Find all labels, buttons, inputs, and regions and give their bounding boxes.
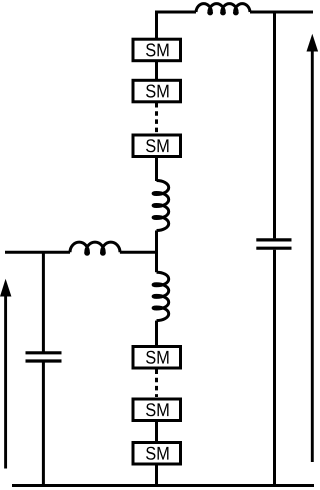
wire: SM1-SM2 link <box>155 61 158 81</box>
label SM1 <box>146 43 168 56</box>
wire: SM3 to L-arm-upper <box>155 157 158 182</box>
submodule SM1 <box>133 39 181 61</box>
label SM2 <box>146 85 168 98</box>
wire: SM6 to bottom bus <box>155 464 158 486</box>
label SM3 <box>146 139 168 152</box>
inductor L-mid (3 loops, horizontal) <box>70 242 120 254</box>
wire: junction segment between arm inductors <box>155 231 158 273</box>
submodule SM3 <box>133 135 181 157</box>
submodule SM2 <box>133 80 181 102</box>
submodule SM5 <box>133 399 181 421</box>
wire: middle bus left of inductor <box>5 251 70 254</box>
wire: right leg upper <box>273 12 276 238</box>
submodule SM6 <box>133 443 181 465</box>
inductor L-arm-lower (4 loops, vertical) <box>153 272 169 320</box>
label SM5 <box>146 403 168 416</box>
label SM4 <box>146 351 168 364</box>
inductor L-top (4 loops, horizontal) <box>196 4 250 14</box>
capacitor C-right plates <box>256 240 291 248</box>
capacitor C-left plates <box>26 353 62 361</box>
arrow: left voltage arrow shaft <box>4 294 7 469</box>
wire: left leg upper <box>42 252 45 351</box>
wire: dashed continuation upper chain <box>155 103 158 133</box>
wire: left leg lower <box>42 362 45 485</box>
wire: SM5-SM6 link <box>155 421 158 443</box>
label SM6 <box>146 447 168 460</box>
wire: L-arm-lower to SM4 <box>155 321 158 346</box>
wire: middle bus right of inductor to junction <box>120 251 157 254</box>
inductor L-arm-upper (4 loops, vertical) <box>153 181 169 231</box>
wire: right leg lower <box>273 250 276 486</box>
arrow: left voltage arrowhead <box>0 279 11 297</box>
arrow: right voltage arrowhead <box>307 34 319 52</box>
arrow: right voltage arrow shaft <box>311 50 314 463</box>
wire: top bus with corner into SM chain <box>157 12 197 39</box>
wire: dashed continuation lower chain <box>155 370 158 398</box>
wire: bottom bus <box>12 484 314 487</box>
submodule SM4 <box>133 347 181 369</box>
wire: top bus right segment <box>250 11 313 14</box>
